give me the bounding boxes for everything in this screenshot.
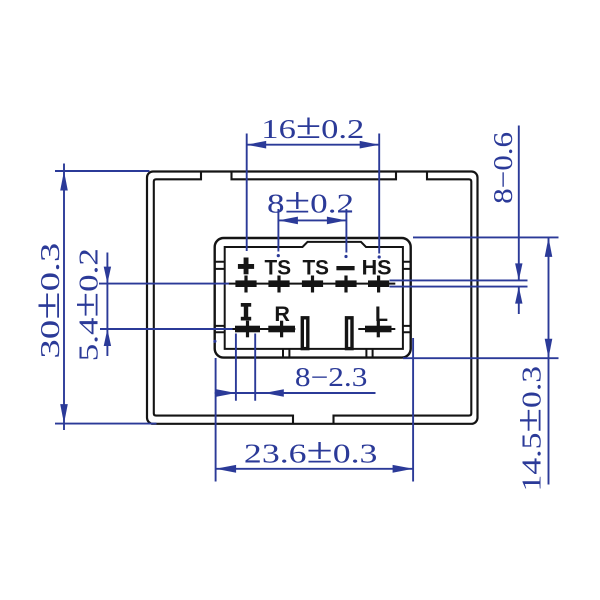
bottom pin row lines — [229, 328, 296, 330]
connector side latch ticks left — [215, 262, 225, 333]
dim 30 line — [63, 164, 65, 431]
arrow 8 right — [327, 217, 347, 225]
label I — [241, 303, 251, 321]
arrow 5.4 lower (up) — [104, 329, 111, 346]
dim 16 extension lines — [246, 134, 248, 252]
label minus — [336, 266, 354, 270]
arrow 30 bottom — [60, 404, 68, 424]
pin edge extension lines right — [390, 279, 528, 281]
dim 30 extension bottom — [55, 423, 157, 425]
dim 8-0.6 lower arrow tail — [518, 287, 520, 314]
pin I blade — [235, 321, 260, 338]
svg-text:L: L — [375, 302, 388, 326]
arrow 30 top — [60, 171, 68, 191]
arrow 8-2.3 first (right) — [216, 389, 236, 397]
arrow 5.4 upper (down) — [104, 267, 111, 284]
svg-text:R: R — [274, 302, 290, 326]
relay body outer outline — [147, 172, 478, 424]
connector top extension line — [413, 236, 559, 238]
arrow 16 right — [360, 141, 380, 149]
svg-text:8−2.3: 8−2.3 — [295, 362, 368, 392]
pin 2 (TS) blade — [268, 276, 289, 293]
svg-text:TS: TS — [265, 256, 292, 280]
dim 8-2.3 line — [215, 392, 376, 394]
keying slot A — [302, 318, 308, 349]
svg-text:TS: TS — [302, 256, 329, 280]
arrow 8-0.6 lower (up) — [515, 287, 522, 304]
connector bottom extension line — [403, 357, 559, 359]
centerline top pin row — [99, 283, 229, 285]
arrowheads — [60, 141, 552, 473]
dim 8-0.6 line — [518, 126, 520, 281]
pin R blade — [268, 321, 295, 338]
arrow 14.5 bottom (down) — [545, 339, 553, 359]
arrow 8-0.6 upper (down) — [515, 263, 522, 280]
svg-text:8−0.6: 8−0.6 — [488, 132, 518, 204]
svg-text:HS: HS — [362, 256, 392, 280]
relay body inner offset contour with top notches and bottom notch — [154, 172, 472, 424]
dim 23.6 line — [216, 468, 414, 470]
small extension dots — [213, 254, 381, 343]
dim 14.5 line — [548, 237, 550, 484]
connector bottom latch ticks — [283, 349, 373, 358]
centerline bottom pin row — [100, 328, 233, 330]
arrow 16 left — [247, 141, 267, 149]
dim 8 extension lines — [277, 209, 279, 252]
connector side latch ticks right — [403, 262, 411, 333]
pin 1 (+) blade — [235, 276, 256, 293]
dim 5.4 line — [106, 253, 108, 357]
arrow 8 left — [278, 217, 298, 225]
dim 30 extension top — [55, 170, 150, 172]
dim 8 line — [278, 219, 346, 221]
pin L blade — [365, 321, 392, 338]
arrow 14.5 top (up) — [545, 237, 553, 257]
top pin row line — [229, 283, 396, 285]
dim 16 line — [247, 144, 380, 146]
pin 3 (TS) blade — [302, 276, 323, 293]
pin 5 (HS) blade — [368, 276, 389, 293]
connector pocket inner contour with top key bump — [225, 242, 403, 349]
dim 8-2.3 extension lines — [235, 334, 237, 401]
arrow 23.6 right — [393, 465, 414, 473]
pin 4 (-) blade — [335, 276, 356, 293]
arrow 23.6 left — [216, 465, 237, 473]
label + — [238, 258, 254, 275]
dim 23.6 extension lines — [215, 358, 217, 482]
blue dimension graphics — [55, 126, 559, 485]
keying slot B — [347, 318, 353, 349]
arrow 8-2.3 second (left) — [264, 389, 284, 397]
connector pocket outer rounded rect — [215, 238, 411, 358]
